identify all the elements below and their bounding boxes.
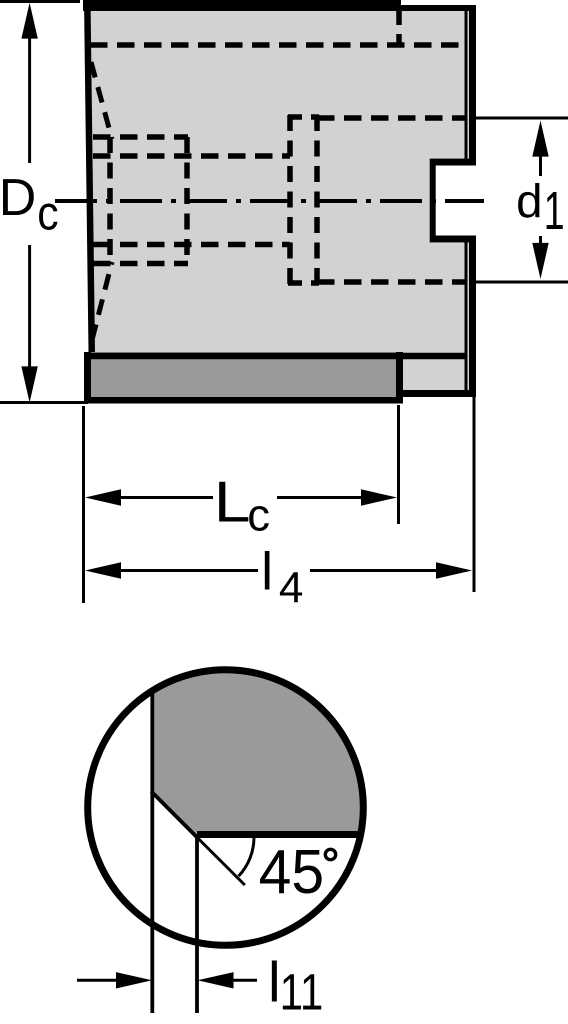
svg-text:d: d — [516, 175, 542, 228]
d1 dimension line lower — [539, 236, 542, 248]
detail circle dark sector — [152, 671, 363, 837]
insert bar left edge — [84, 352, 91, 403]
l4 dimension line left — [115, 569, 258, 572]
thread minor bottom — [93, 242, 290, 248]
rear bore bottom — [317, 279, 466, 285]
svg-text:l: l — [261, 543, 273, 602]
detail bottom edge of dark sector — [197, 831, 360, 838]
l4 arrow right — [436, 562, 472, 578]
svg-text:c: c — [37, 186, 58, 240]
svg-text:1: 1 — [544, 181, 565, 241]
rear bore top — [317, 115, 466, 121]
notch white cutout — [430, 158, 478, 243]
thread minor top — [93, 153, 290, 159]
notch left edge — [430, 159, 436, 243]
insert bar right edge — [396, 352, 403, 403]
l11 dimension line left shaft — [77, 979, 120, 982]
top edge rear — [401, 5, 476, 11]
svg-text:L: L — [214, 470, 251, 534]
d1 arrow down — [532, 243, 548, 279]
d1 dimension line upper — [539, 152, 542, 176]
Lc arrow right — [361, 489, 397, 505]
notch top edge — [430, 159, 476, 166]
right outer edge lower — [469, 242, 476, 397]
thread box right — [184, 137, 190, 264]
body fill light gray — [86, 3, 473, 394]
top edge front thick — [83, 0, 401, 11]
Lc arrow left — [85, 489, 121, 505]
Lc dimension line right — [277, 496, 363, 499]
detail face line — [150, 691, 154, 1013]
Dc arrow up — [21, 3, 37, 39]
Dc dimension line upper — [28, 34, 31, 163]
relief box right — [314, 115, 320, 285]
svg-text:D: D — [0, 169, 36, 227]
countersink cone upper — [91, 62, 112, 139]
detail circle outline — [88, 670, 364, 946]
body bottom line — [86, 353, 467, 360]
centerline — [55, 199, 484, 203]
svg-text:c: c — [247, 490, 270, 541]
detail vertex line down — [195, 837, 199, 1013]
relief box left — [287, 115, 293, 285]
detail chamfer diagonal — [151, 791, 198, 838]
Dc extension line top — [0, 0, 80, 3]
hidden line top seat — [90, 42, 466, 48]
l11 arrow right — [198, 972, 234, 988]
l4 dimension line right — [310, 569, 437, 572]
thread box top — [93, 134, 188, 140]
Dc arrow down — [21, 366, 37, 402]
Dc dimension line lower — [28, 245, 31, 372]
thread box left — [107, 137, 113, 264]
svg-text:45: 45 — [259, 837, 325, 907]
Lc left extension line — [82, 406, 85, 603]
rear bottom edge — [397, 390, 476, 397]
relief box top connector — [288, 114, 319, 120]
degree symbol — [325, 849, 335, 859]
detail chamfer extension — [197, 837, 245, 885]
Lc dimension line left — [115, 496, 213, 499]
countersink cone lower — [92, 262, 112, 340]
l11 dimension line right shaft — [230, 979, 257, 982]
insert bar dark gray — [86, 352, 400, 403]
right outer edge upper — [469, 5, 476, 162]
l4 arrow left — [85, 562, 121, 578]
relief box bottom connector — [288, 280, 319, 286]
left edge — [84, 0, 95, 352]
l11 arrow left — [116, 972, 152, 988]
Lc right extension line — [397, 405, 400, 524]
d1 extension line bottom — [474, 281, 568, 284]
right inner line upper — [465, 11, 468, 162]
svg-text:l: l — [268, 951, 281, 1015]
d1 arrow up — [532, 121, 548, 157]
notch bottom edge — [430, 236, 476, 243]
Dc extension line bottom — [0, 401, 88, 404]
d1 extension line top — [474, 117, 568, 120]
l4 right extension line — [473, 395, 476, 592]
insert bar bottom edge — [84, 397, 403, 404]
svg-text:4: 4 — [279, 564, 303, 613]
45 degree arc — [239, 837, 254, 876]
svg-text:11: 11 — [280, 964, 324, 1021]
right inner line lower — [465, 242, 468, 392]
hidden line vertical x399 — [396, 11, 402, 45]
thread box bottom — [93, 261, 188, 267]
